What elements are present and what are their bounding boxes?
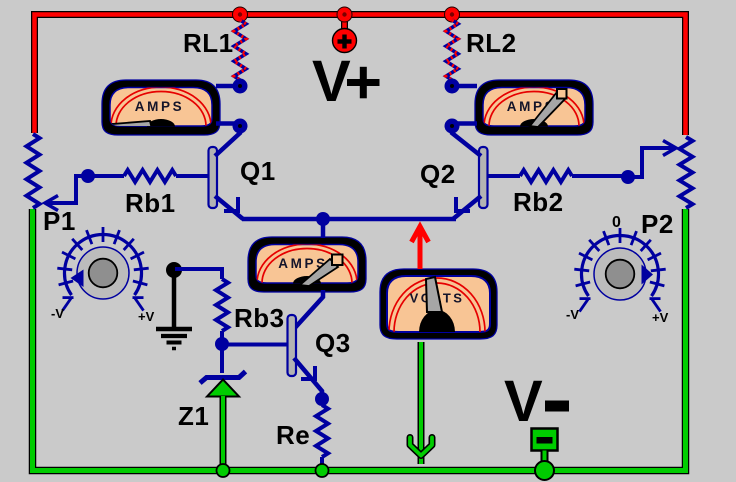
node top-left junction: [233, 7, 248, 22]
svg-text:Rb2: Rb2: [513, 187, 564, 217]
node P1-Rb1 junction: [81, 169, 95, 183]
label V-: [504, 369, 569, 434]
resistor Rb1: [124, 170, 176, 182]
transistor Q1: [209, 126, 244, 219]
node M1-Q1: [233, 119, 248, 134]
label V+: [312, 49, 380, 114]
wire M1 arms: [216, 84, 240, 89]
wire Q3 base: [222, 343, 288, 347]
potentiometer P1: [27, 134, 40, 208]
wire base bus left: [76, 174, 124, 178]
wire V- green rail (left drop + bottom + right drop): [33, 209, 686, 471]
wire emitter junction to M3: [321, 219, 326, 238]
svg-text:Q3: Q3: [315, 328, 351, 358]
svg-text:Q2: Q2: [420, 159, 456, 189]
svg-text:+V: +V: [138, 309, 155, 324]
node emitter junction: [316, 212, 330, 226]
svg-text:AMPS: AMPS: [135, 99, 184, 114]
node RL1-M1: [233, 79, 248, 94]
resistor Re: [316, 405, 328, 457]
transistor Q3: [288, 315, 323, 399]
node Rb3-Q3-Z1 junction: [215, 337, 229, 351]
node RL2-M2: [445, 79, 460, 94]
resistor Rb2: [520, 170, 572, 182]
dial P1 adjust knob: [57, 227, 148, 311]
wire emitter bus: [242, 217, 456, 222]
wire M4 to rail (green, with down arrow): [410, 342, 432, 464]
zener diode Z1: [200, 372, 246, 397]
meter M1 AMPS (left): [102, 80, 220, 165]
svg-text:P2: P2: [641, 209, 674, 239]
svg-text:P1: P1: [43, 206, 76, 236]
transistor Q2: [452, 126, 488, 219]
svg-text:-V: -V: [566, 307, 579, 322]
svg-text:Re: Re: [276, 420, 310, 450]
wire V+ terminal stub: [341, 16, 348, 31]
arrow current (red, up): [412, 227, 429, 270]
wire P1 wiper: [46, 176, 88, 203]
wire P2 wiper: [628, 148, 674, 177]
svg-text:Q1: Q1: [240, 156, 276, 186]
svg-text:Rb1: Rb1: [125, 188, 176, 218]
meter M2 AMPS (right): [475, 80, 593, 165]
meter M4 VOLTS: [380, 269, 497, 386]
wire Z1 to rail (green): [220, 396, 227, 468]
svg-text:RL1: RL1: [183, 28, 234, 58]
node V+ junction: [337, 7, 352, 22]
wire base bus right: [488, 174, 521, 178]
wire V+ red rail (top + left and right drops): [35, 15, 686, 136]
meter M3 AMPS (middle): [248, 237, 366, 322]
node M2-Q2: [445, 119, 460, 134]
terminal V+ (red circle with plus): [333, 29, 357, 53]
node Rb2-P2 junction: [621, 170, 635, 184]
node Re-rail junction: [316, 464, 329, 477]
wire M2 arms: [452, 84, 477, 89]
svg-text:Rb3: Rb3: [234, 303, 285, 333]
potentiometer P2: [680, 137, 693, 208]
dial P2 adjust knob: [574, 228, 665, 312]
wire ground to Rb3: [175, 269, 222, 279]
svg-text:Z1: Z1: [178, 401, 209, 431]
node Z1-rail junction: [217, 464, 230, 477]
resistor RL2: [446, 20, 458, 86]
resistor Rb3: [216, 279, 228, 331]
svg-text:RL2: RL2: [466, 28, 517, 58]
terminal V- (green battery): [532, 429, 558, 481]
wire M3 to Q3 collector: [293, 290, 323, 330]
svg-text:-V: -V: [51, 306, 64, 321]
node Q3 emitter-Re: [315, 392, 329, 406]
svg-text:+V: +V: [652, 310, 669, 325]
node top-right junction: [445, 7, 460, 22]
wire node to Z1: [220, 344, 224, 373]
ground: [156, 262, 192, 349]
svg-text:V: V: [504, 369, 543, 434]
resistor RL1: [234, 20, 246, 86]
svg-text:V: V: [312, 49, 351, 114]
